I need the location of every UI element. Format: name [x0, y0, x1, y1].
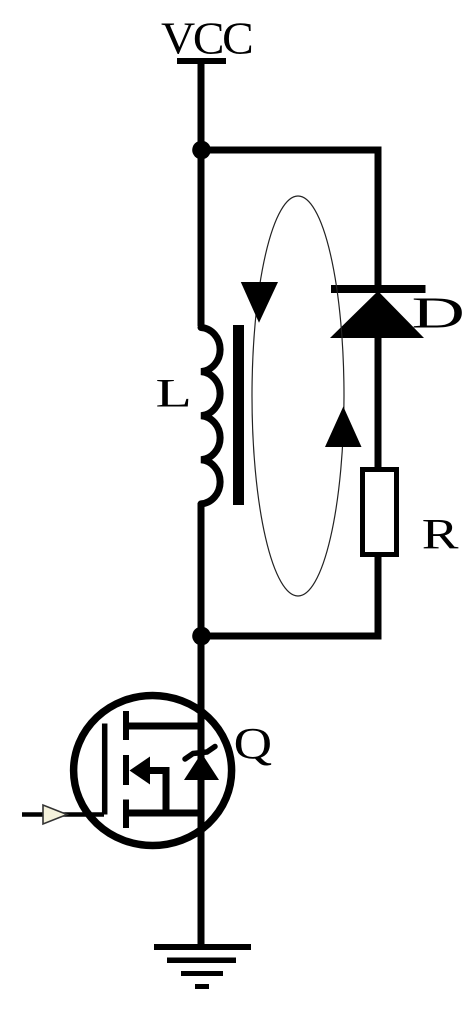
power rail VCC bar — [177, 58, 226, 64]
ground bar 3 — [181, 971, 223, 976]
gate arrowhead (open triangle) — [43, 805, 67, 824]
wire bottom horizontal — [201, 633, 382, 640]
ground bar 4 — [195, 984, 209, 989]
gate lead wire — [22, 812, 104, 817]
wire inductor bottom to node B — [198, 503, 205, 636]
wire diode anode to resistor — [375, 338, 382, 469]
MOSFET Q circle — [74, 696, 232, 846]
node A junction dot — [192, 141, 211, 160]
wire right branch top to diode cathode — [375, 147, 382, 290]
wire node A to inductor top — [198, 150, 205, 326]
channel segment top — [123, 711, 129, 740]
wire resistor to bottom horizontal — [375, 557, 382, 640]
svg-text:L: L — [156, 372, 192, 417]
ground bar 1 — [154, 944, 251, 950]
resistor R body — [363, 470, 397, 555]
channel segment middle — [123, 755, 129, 785]
gate bar — [102, 724, 108, 815]
wire VCC bar to node A — [198, 61, 205, 152]
node B junction dot — [192, 627, 211, 646]
diode D cathode bar — [331, 285, 426, 293]
body connection wire — [148, 771, 166, 814]
svg-text:R: R — [422, 510, 459, 558]
svg-text:D: D — [412, 289, 465, 338]
svg-text:VCC: VCC — [161, 14, 252, 64]
channel segment bottom — [123, 800, 129, 829]
source connection — [126, 810, 201, 817]
channel arrow (body arrow pointing left) — [130, 757, 151, 785]
transformer core bar — [233, 325, 244, 505]
drain connection — [126, 723, 201, 730]
current arrow up (right of loop) — [325, 407, 362, 448]
current arrow down (left of loop) — [241, 282, 278, 323]
body diode (zener) triangle — [184, 753, 219, 780]
wire node A to right branch (top horizontal) — [201, 147, 382, 154]
wire node B to ground — [198, 636, 205, 947]
diode D triangle — [330, 291, 424, 338]
inductor L coil — [201, 328, 220, 504]
body diode zener bar — [185, 747, 215, 760]
svg-text:Q: Q — [234, 718, 272, 768]
ground bar 2 — [167, 958, 236, 964]
current loop ellipse — [252, 196, 344, 596]
